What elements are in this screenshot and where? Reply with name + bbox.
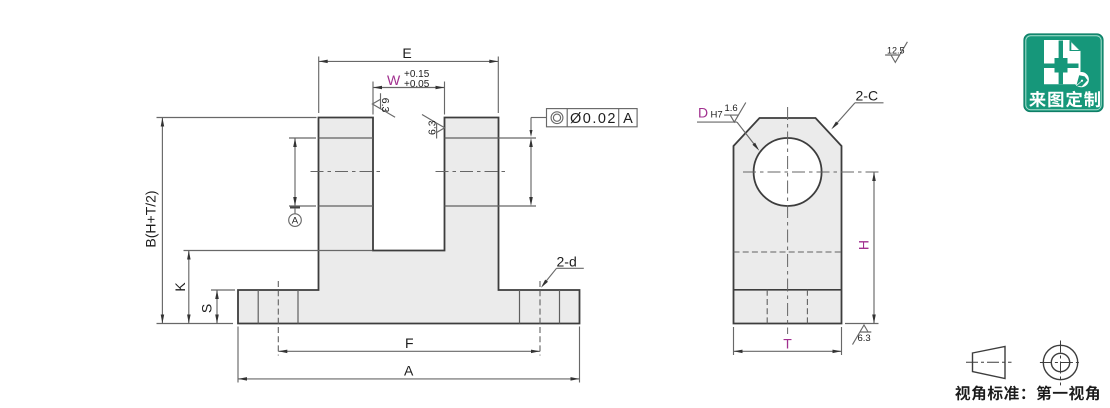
dimension W line with arrows (373, 86, 445, 89)
front view left bolt hole centerline (dashed) (277, 281, 279, 356)
side view bore circle D (754, 138, 822, 206)
dimension W label (magenta) (387, 72, 401, 88)
svg-text:S: S (199, 304, 215, 313)
callout 2-d leader arrow (541, 268, 557, 287)
side view vertical centerline (dash-dot) (787, 107, 789, 334)
geometric tolerance frame (concentricity 0.02 A) (547, 109, 638, 127)
front view left bolt hole edge lines (258, 290, 298, 324)
dimension A line with arrows (238, 377, 580, 381)
svg-text:A: A (623, 111, 633, 127)
general surface roughness 12.5 symbol (885, 42, 907, 63)
surface roughness 6.3 on slot right wall (rotated, apex right) (422, 115, 445, 139)
dimension W tolerance +0.15/+0.05 (404, 69, 430, 90)
callout D label (magenta) (698, 105, 708, 121)
dimension S line with arrows (215, 290, 219, 324)
svg-text:B(H+T/2): B(H+T/2) (143, 190, 159, 247)
badge pen circle icon (1074, 72, 1089, 87)
dimension T extension lines (734, 327, 842, 355)
svg-text:F: F (405, 335, 414, 351)
first-angle projection cone (trapezoid) (973, 347, 1006, 379)
svg-text:6.3: 6.3 (858, 333, 871, 344)
dimension H line with arrows (872, 172, 876, 324)
surface roughness 6.3 under base (flipped) (853, 325, 872, 345)
callout D H7 leader line (697, 122, 759, 151)
dimension A label (404, 363, 414, 379)
front view bore silhouette line bottom (across right column) (445, 205, 499, 207)
side view bolt hole hidden lines (dashed) (767, 290, 807, 324)
side view horizontal centerline (dash-dot) (743, 171, 879, 173)
front view bore silhouette line bottom (across left column) (319, 205, 374, 207)
callout 2-C leader arrow (831, 103, 855, 130)
callout 2-d label with underline (557, 254, 584, 270)
badge background (rounded teal square) (1024, 34, 1103, 112)
svg-text:12.5: 12.5 (887, 46, 905, 56)
svg-text:6.3: 6.3 (379, 98, 391, 113)
svg-text:K: K (172, 282, 188, 292)
dimension H label (magenta, rotated) (856, 240, 872, 250)
side view part body (chamfered block, filled outline) (734, 118, 842, 324)
front view right bolt hole edge lines (520, 290, 560, 324)
dimension K extension line (slot bottom) (184, 250, 373, 252)
svg-text:Ø0.02: Ø0.02 (570, 111, 617, 127)
dimension T label (magenta) (783, 336, 792, 352)
svg-text:T: T (783, 336, 792, 352)
dimension T line with arrows (734, 350, 842, 354)
svg-text:+0.05: +0.05 (404, 79, 430, 90)
dimension A extension lines (238, 327, 580, 383)
dimension E label (402, 45, 411, 61)
dimension H extension line (bottom) (845, 323, 879, 325)
projection circles (two concentric) (1043, 345, 1077, 379)
svg-text:H7: H7 (711, 110, 723, 121)
callout 2-C label with underline (855, 88, 884, 104)
dimension E line with arrows (319, 60, 499, 64)
svg-text:A: A (292, 216, 299, 227)
datum feature symbol A (circle) (289, 214, 302, 227)
svg-text:2-d: 2-d (557, 254, 577, 270)
dimension B(H+T/2) extension lines (157, 118, 317, 324)
svg-text:W: W (387, 72, 401, 88)
svg-text:H: H (856, 240, 872, 250)
dimension B(H+T/2) line with arrows (161, 118, 165, 324)
dimension K label (rotated) (172, 282, 188, 292)
front view right bolt hole centerline (dashed) (539, 281, 541, 356)
datum feature A stub (290, 208, 300, 214)
svg-text:D: D (698, 105, 708, 121)
svg-text:1.6: 1.6 (725, 103, 738, 114)
badge crosshair mark (green plus on page) (1043, 41, 1079, 85)
bore height extension lines (left) (289, 138, 316, 206)
front view bore silhouette line top (across left column) (319, 137, 374, 139)
front view bore centerline (left column, dash-dot) (311, 171, 382, 173)
svg-text:2-C: 2-C (856, 88, 879, 104)
front view part body (U-shaped shaft support, filled outline) (238, 118, 580, 324)
dimension K line with arrows (187, 251, 191, 324)
tolerance frame leader (530, 118, 547, 138)
side view slot bottom hidden line (dashed) (734, 251, 842, 253)
dimension F line with arrows (278, 350, 540, 354)
dimension S label (rotated) (199, 304, 215, 313)
view standard text 视角标准：第一视角 (955, 386, 1099, 401)
dimension F label (405, 335, 414, 351)
surface roughness 6.3 on slot left wall (rotated, apex left) (372, 93, 395, 117)
svg-text:A: A (404, 363, 414, 379)
surface roughness 1.6 on leader (724, 103, 746, 123)
side view base top edge line (734, 289, 842, 291)
front view bore centerline (right column, dash-dot) (436, 171, 508, 173)
svg-text:E: E (402, 45, 411, 61)
projection cone centerline (dash-dot) (966, 361, 1012, 363)
front view bore silhouette line top (across right column) (445, 137, 499, 139)
badge text 来图定制 (white) (1029, 91, 1100, 108)
svg-text:6.3: 6.3 (426, 120, 438, 135)
bore height dimension line (left) (293, 138, 297, 206)
projection circles crosshair centerlines (1040, 341, 1081, 386)
dimension S extension line (211, 289, 235, 291)
bore extension lines (right) (499, 138, 537, 206)
bore dimension line (right) (529, 138, 533, 206)
dimension B(H+T/2) label (rotated) (143, 190, 159, 247)
callout H7 label (711, 110, 723, 121)
badge document icon (white page with folded corner) (1044, 40, 1081, 84)
dimension W extension lines (373, 82, 445, 115)
dimension E extension lines (319, 57, 499, 114)
